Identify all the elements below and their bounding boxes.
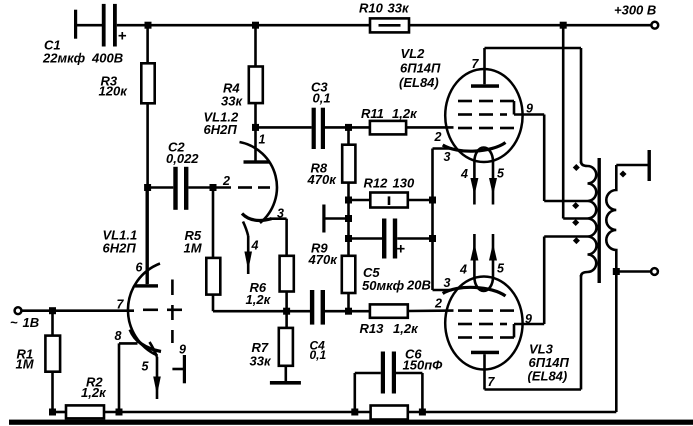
pentode VL2 heater loop (474, 148, 493, 162)
triode VL1.1 heater arrow pin5 (150, 342, 161, 399)
node junction heater bar (345, 215, 352, 222)
label VL1.2 type (204, 110, 239, 138)
svg-text:9: 9 (525, 312, 532, 326)
svg-text:5: 5 (497, 262, 505, 276)
node junction R9/C4/R13 (345, 308, 352, 315)
label R10 value (359, 1, 410, 16)
resistor R6 (280, 219, 294, 312)
node junction R2/cathode VL1.1 (116, 409, 123, 416)
label R9 value (308, 241, 339, 268)
svg-text:3: 3 (444, 150, 451, 164)
resistor R8 (342, 127, 355, 255)
label VL1.1 type (103, 228, 138, 256)
wire R3 to VL1.1 anode (146, 103, 149, 284)
svg-text:4: 4 (459, 263, 467, 277)
triode VL1.2 heater arrow pin4 (243, 222, 252, 275)
envelope dashed line VL1.1 (171, 280, 174, 344)
pentode VL3 heater pin5 arrow (489, 234, 497, 277)
svg-text:+300 В: +300 В (614, 3, 656, 18)
svg-text:4: 4 (251, 239, 259, 253)
pentode VL3 heater loop (474, 277, 493, 291)
node junction rail/B+ tap (560, 22, 567, 29)
svg-text:0,1: 0,1 (313, 91, 331, 106)
resistor R13 (370, 304, 454, 317)
svg-text:3: 3 (277, 207, 284, 221)
svg-text:150пФ: 150пФ (403, 358, 444, 373)
svg-text:7: 7 (117, 298, 125, 312)
wire secondary bottom to rail (615, 272, 618, 413)
svg-text:20В: 20В (406, 278, 431, 293)
svg-text:R10: R10 (359, 1, 384, 16)
svg-text:6П14П: 6П14П (400, 60, 441, 75)
label R7 value (250, 340, 272, 369)
resistor R12 (349, 193, 433, 208)
pentode VL3 envelope (445, 277, 522, 370)
label VL3 type (528, 342, 570, 384)
triode VL1.2 cathode pin3 (242, 214, 287, 221)
label VL2 type (399, 46, 441, 90)
wire secondary to output terminal (616, 270, 651, 273)
wire cathode bus VL1.2 (213, 310, 311, 313)
resistor R10 (370, 18, 409, 32)
heater tap bar VL1.2 pin9 (322, 205, 348, 233)
node junction R12/cathode line (429, 197, 436, 204)
triode VL1.1 grid pin7 dashes (143, 308, 182, 311)
svg-text:7: 7 (472, 57, 480, 71)
svg-text:2: 2 (434, 130, 442, 144)
heater tap bar VL1.1 pin9 (172, 355, 186, 383)
node junction C5 right (429, 235, 436, 242)
wire secondary top to chassis bar (616, 164, 649, 167)
svg-text:1,2к: 1,2к (246, 292, 272, 307)
label R12 value (364, 176, 415, 191)
transformer secondary winding (606, 165, 616, 272)
node junction R3/C2/anode (144, 184, 151, 191)
svg-text:+: + (396, 241, 405, 258)
svg-text:22мкф: 22мкф (42, 51, 86, 66)
svg-text:VL2: VL2 (401, 46, 426, 61)
svg-text:33к: 33к (388, 1, 410, 16)
pentode VL2 anode pin7 (471, 48, 499, 88)
wire bottom feedback rail (104, 411, 371, 414)
polarity dot primary section4 (573, 237, 580, 244)
svg-text:1: 1 (259, 133, 266, 147)
capacitor C3 (256, 108, 370, 149)
svg-text:8: 8 (115, 329, 122, 343)
svg-text:3: 3 (444, 276, 451, 290)
resistor R5 (206, 188, 220, 312)
label C3 value (311, 80, 331, 106)
svg-text:6: 6 (136, 261, 144, 275)
wire B+ rail right (409, 24, 652, 27)
resistor R2 (53, 405, 105, 418)
node junction C3/R11/R8 (345, 124, 352, 131)
polarity dot primary section1 (573, 164, 580, 171)
svg-text:1М: 1М (184, 241, 203, 256)
capacitor C6 (355, 352, 423, 413)
svg-text:0,1: 0,1 (310, 348, 327, 362)
wire rail right (408, 411, 617, 414)
wire B+ rail left (117, 24, 370, 27)
svg-text:120к: 120к (99, 84, 129, 99)
label C2 value (166, 140, 199, 167)
polarity dot primary section2 (572, 202, 579, 209)
label R4 value (221, 81, 243, 109)
svg-text:6Н2П: 6Н2П (103, 241, 137, 256)
pentode VL3 grid rows (458, 311, 514, 338)
svg-text:6Н2П: 6Н2П (204, 122, 238, 137)
svg-text:470к: 470к (307, 172, 338, 187)
resistor feedback on rail (371, 406, 408, 420)
wire VL3 anode to transformer (485, 275, 582, 390)
pentode VL2 cathode pin3 (433, 143, 506, 291)
chassis bar terminal (648, 150, 651, 181)
node junction input/R1 (49, 307, 56, 314)
svg-text:33к: 33к (250, 354, 272, 369)
node junction R8/R12 (345, 197, 352, 204)
svg-text:1,2к: 1,2к (81, 385, 107, 400)
triode VL1.1 cathode pin8 (119, 330, 161, 413)
pentode VL2 grid rows (458, 101, 514, 128)
svg-text:+: + (118, 28, 127, 45)
label R13 value (360, 321, 420, 336)
transformer primary tap VL3 screen (544, 235, 587, 238)
svg-text:400В: 400В (91, 51, 123, 66)
svg-text:50мкф: 50мкф (362, 278, 405, 293)
ground bar R7 (270, 381, 301, 385)
svg-text:(EL84): (EL84) (528, 369, 568, 384)
label C5 value (362, 265, 431, 293)
svg-text:2: 2 (222, 174, 230, 188)
svg-text:470к: 470к (308, 252, 339, 267)
wire input to VL1.1 grid (22, 309, 135, 312)
svg-text:2: 2 (434, 297, 442, 311)
pentode VL3 anode pin7 (471, 351, 499, 390)
resistor R4 (249, 25, 263, 127)
svg-text:R13: R13 (360, 321, 385, 336)
transformer primary winding (581, 162, 597, 277)
node junction C5 left (345, 235, 352, 242)
pentode VL3 screen pin9 lead (514, 237, 544, 338)
svg-text:4: 4 (460, 167, 468, 181)
svg-text:5: 5 (142, 360, 150, 374)
triode VL1.2 envelope arc (240, 142, 277, 223)
svg-text:9: 9 (179, 343, 186, 357)
label R1 value (16, 347, 35, 372)
svg-text:R11: R11 (361, 106, 384, 121)
triode VL1.1 envelope arc (128, 264, 160, 356)
wire VL2 anode to transformer (485, 48, 582, 163)
terminal output (651, 268, 658, 275)
terminal +300V (651, 22, 658, 29)
svg-text:1,2к: 1,2к (393, 321, 419, 336)
resistor R3 (141, 25, 154, 103)
resistor R1 (45, 311, 60, 412)
capacitor C1 (74, 4, 127, 47)
svg-text:~: ~ (10, 315, 18, 330)
node junction C6 left (351, 409, 358, 416)
transformer primary tap VL2 screen (544, 200, 587, 203)
node junction rail/R3 (145, 22, 152, 29)
label R8 value (307, 161, 338, 188)
transformer primary tap B+ (563, 25, 587, 218)
svg-text:7: 7 (488, 375, 496, 389)
node junction rail/R4 (252, 22, 259, 29)
resistor R11 (370, 121, 454, 134)
polarity dot secondary (619, 170, 626, 177)
node junction R4/anode VL1.2/C3 (252, 124, 259, 131)
pentode VL2 heater pin4 arrow (470, 162, 478, 205)
terminal input ~1V (15, 307, 22, 314)
node junction R1/R2 (49, 409, 56, 416)
label R5 value (184, 228, 203, 256)
pentode VL2 heater pin5 arrow (489, 162, 497, 205)
node junction C6 right (419, 409, 426, 416)
pentode VL2 envelope (445, 69, 522, 162)
svg-text:9: 9 (526, 102, 533, 116)
svg-text:5: 5 (497, 167, 505, 181)
capacitor C4 (310, 290, 370, 325)
transformer T1 core (598, 158, 601, 283)
label C6 value (403, 347, 444, 373)
svg-text:1,2к: 1,2к (392, 106, 418, 121)
label R11 value (361, 106, 418, 121)
capacitor C2 (148, 167, 213, 210)
label R3 value (99, 74, 129, 99)
triode VL1.2 anode pin1 (244, 127, 270, 163)
svg-text:(EL84): (EL84) (399, 75, 439, 90)
svg-text:130: 130 (393, 176, 415, 191)
pentode VL3 cathode pin3 (433, 287, 506, 296)
label ~1V (10, 315, 39, 330)
node junction secondary bottom (613, 268, 620, 275)
node junction R6/C4/R7 (283, 308, 290, 315)
capacitor C5 (349, 219, 433, 259)
resistor R9 (342, 256, 356, 311)
svg-text:1М: 1М (16, 357, 35, 372)
border bottom bar (9, 420, 693, 425)
svg-text:1В: 1В (23, 315, 40, 330)
svg-text:33к: 33к (221, 94, 243, 109)
label R6 value (246, 280, 272, 307)
label R2 value (81, 375, 107, 401)
label C1 value (42, 38, 123, 66)
polarity dot primary section3 (572, 219, 579, 226)
triode VL1.1 anode pin6 (135, 188, 158, 288)
pentode VL3 heater pin4 arrow (470, 234, 478, 277)
resistor R7 (279, 311, 293, 381)
triode VL1.2 grid pin2 (213, 186, 270, 189)
label C4 value (310, 339, 327, 363)
node junction C2/R5/grid VL1.2 (210, 184, 217, 191)
svg-text:R12: R12 (364, 176, 389, 191)
pentode VL2 screen pin9 lead (514, 101, 544, 201)
svg-text:0,022: 0,022 (166, 151, 199, 166)
